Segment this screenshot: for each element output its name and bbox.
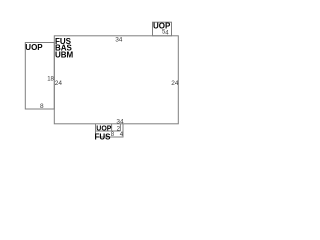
svg-text:34: 34 xyxy=(116,118,124,125)
svg-text:24: 24 xyxy=(171,80,179,87)
svg-text:UBM: UBM xyxy=(55,50,74,59)
left porch outline UOP 8x18 xyxy=(25,43,54,110)
bottom porch outer outline FUS 8x4 xyxy=(96,124,124,137)
svg-text:UOP: UOP xyxy=(96,125,112,132)
svg-text:UOP: UOP xyxy=(25,43,43,52)
svg-text:FUS: FUS xyxy=(95,133,112,142)
svg-text:34: 34 xyxy=(115,37,123,44)
bottom porch UOP box right edge xyxy=(111,124,113,131)
svg-text:18: 18 xyxy=(47,77,54,83)
bottom porch inner line UOP depth 2 xyxy=(96,130,121,132)
main building outline BAS/FUS/UBM 34x24 xyxy=(54,36,178,124)
svg-text:8: 8 xyxy=(40,103,44,110)
svg-text:24: 24 xyxy=(55,80,63,87)
top bump outline UOP 5x4 xyxy=(153,22,172,36)
bottom porch step vertical xyxy=(119,124,121,131)
